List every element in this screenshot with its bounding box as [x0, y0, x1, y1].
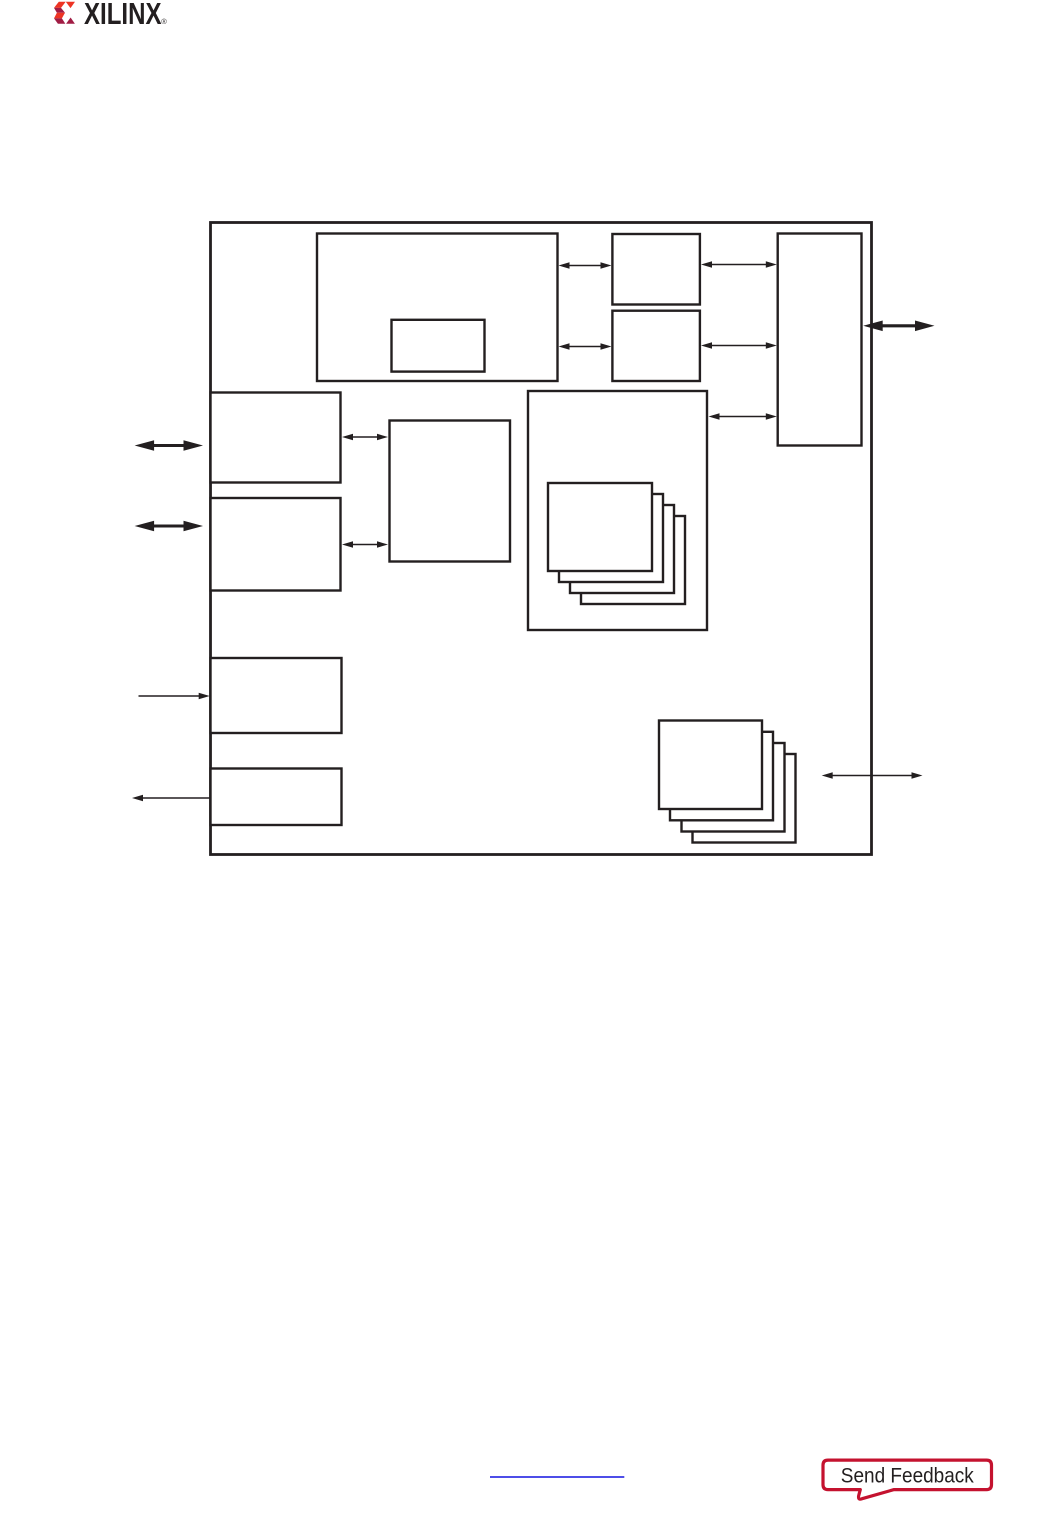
- send feedback button bubble: [823, 1460, 992, 1499]
- xilinx logo mark band 1 (orange): [54, 2, 66, 8]
- stacked sheet 3: [570, 505, 674, 593]
- block: lower small unit: [612, 311, 700, 381]
- stacked sheet 1 (front): [548, 483, 652, 571]
- xilinx logo mark band 4 (crimson): [54, 18, 65, 23]
- arrow: left unit 2 to middle unit: [342, 541, 388, 547]
- xilinx logo mark top-right triangle (orange): [66, 2, 75, 8]
- xilinx logo mark band 2 (crimson): [54, 8, 65, 13]
- block: left unit 4: [211, 769, 342, 826]
- stacked sheet 2: [559, 494, 663, 582]
- block: tall right unit: [778, 234, 862, 446]
- bottom stacked sheet 3: [682, 743, 785, 832]
- block: top-center unit: [317, 234, 558, 382]
- arrow: top-center unit to upper small unit: [559, 262, 612, 268]
- arrow: upper small unit to tall right unit: [701, 261, 777, 267]
- thick arrow: tall right unit to external port: [863, 321, 934, 332]
- block: left unit 2: [211, 498, 341, 591]
- thick arrow: external bus to left unit 2: [135, 521, 203, 532]
- arrow: external input into left unit 3: [139, 693, 210, 699]
- svg-text:®: ®: [161, 17, 167, 26]
- block: left unit 3: [211, 658, 342, 733]
- arrow: left unit 1 to middle unit: [342, 434, 388, 440]
- arrow: top-center unit to lower small unit: [559, 343, 612, 349]
- svg-text:Send Feedback: Send Feedback: [841, 1464, 974, 1487]
- xilinx logo mark band 3 (orange): [54, 13, 65, 19]
- xilinx logo mark bottom-right triangle (crimson): [66, 18, 75, 24]
- bottom stacked sheet 1 (front): [659, 721, 762, 810]
- arrow: bottom stacked sheets to external port: [822, 772, 923, 778]
- hyperlink underline: [490, 1476, 624, 1478]
- thick arrow: external bus to left unit 1: [135, 440, 203, 451]
- bottom stacked sheet 2: [670, 732, 773, 821]
- block: inner sub-unit: [392, 320, 485, 372]
- block: container with stacked sheets: [528, 391, 707, 630]
- arrow: output from left unit 4 to external: [132, 795, 211, 801]
- arrow: sheet container to tall right unit: [709, 413, 777, 419]
- stacked sheet 4 (back): [581, 516, 685, 604]
- outer block boundary: [211, 223, 872, 855]
- bottom stacked sheet 4 (back): [693, 754, 796, 843]
- block: middle unit: [390, 421, 511, 562]
- block: upper small unit: [612, 234, 700, 305]
- svg-text:XILINX: XILINX: [84, 0, 162, 31]
- block: left unit 1: [211, 393, 341, 483]
- arrow: lower small unit to tall right unit: [701, 342, 777, 348]
